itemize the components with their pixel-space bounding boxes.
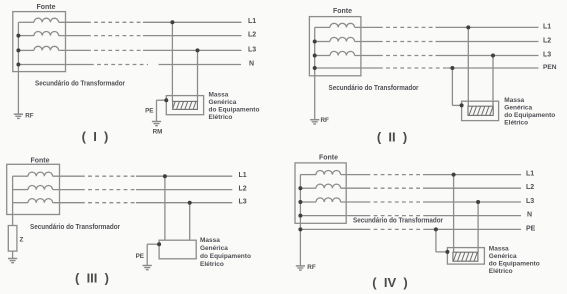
hatched mass symbol (IV) [453,252,478,261]
winding L3 (III) [28,199,53,203]
label RF (I) [25,113,34,120]
node L2 tap (II) [313,40,317,44]
label PEN (II) [543,64,557,71]
star-point bus wire (III) [13,176,28,214]
label L3 (IV) [526,198,534,205]
svg-text:L3: L3 [526,198,534,205]
node PE on enclosure (III) [157,242,161,246]
svg-text:Elétrico: Elétrico [209,114,233,121]
svg-text:L2: L2 [543,37,551,44]
label Fonte (III) [30,157,49,164]
wire L2 (I) [59,35,242,37]
label L2 (II) [543,37,551,44]
label RF (IV) [307,264,316,271]
svg-text:Fonte: Fonte [333,8,352,15]
wire PEN (II) [315,67,539,69]
node L3 junction (III) [188,201,192,205]
wire L3 drop to mass (I) [197,50,199,101]
transformer secondary box (I) [13,12,66,72]
label Massa Generica do Equipamento Eletrico (II) [504,97,555,127]
winding L3 (I) [34,46,59,50]
winding L1 (II) [330,23,355,27]
wire L3 drop to mass (II) [492,56,494,107]
wire PE (IV) [300,228,521,230]
node L1 junction (I) [170,20,174,24]
node L1 junction (III) [163,174,167,178]
svg-text:Secundário do Transformador: Secundário do Transformador [353,218,443,225]
node L3 tap (II) [313,54,317,58]
winding L1 (III) [28,172,53,176]
label Fonte (I) [36,4,55,11]
node L3 tap (IV) [298,200,302,204]
svg-text:RF: RF [321,117,330,124]
equipment mass enclosure (IV) [447,248,484,265]
svg-text:L1: L1 [239,172,247,179]
node L3 junction (I) [196,48,200,52]
svg-text:Massa: Massa [489,246,509,253]
label L1 (I) [248,18,256,25]
label L2 (III) [239,186,247,193]
label L3 (III) [239,199,247,206]
svg-text:Elétrico: Elétrico [489,268,513,275]
label L1 (II) [543,23,551,30]
hatched mass symbol (II) [468,106,493,115]
svg-text:N: N [249,60,254,67]
wire L3 (IV) [341,201,521,203]
wire to impedance Z (III) [12,215,14,226]
svg-text:PE: PE [526,225,536,232]
wire PE (I) [157,100,167,121]
winding L2 (IV) [316,184,341,188]
wire L1 drop to mass (III) [164,176,166,240]
ground electrode RF (I) [14,114,23,118]
label Secundario do Transformador (III) [30,224,120,231]
svg-text:( IV ): ( IV ) [372,275,407,290]
label Secundario do Transformador (I) [35,81,125,88]
label Fonte (IV) [319,154,338,161]
wire L1 (III) [53,175,233,177]
node PE junction (IV) [434,227,438,231]
neutral bus wire (IV) [300,175,316,230]
svg-text:Secundário do Transformador: Secundário do Transformador [35,81,125,88]
svg-text:Massa: Massa [200,237,220,244]
wire L1 (I) [59,21,242,23]
transformer secondary box (II) [309,17,361,76]
node PE on enclosure (II) [460,103,464,107]
caption ( I ) [82,129,109,144]
wire L1 drop to mass (IV) [453,175,455,253]
node PEN tap (II) [313,66,317,70]
wire PE (III) [147,244,159,265]
label Z (III) [20,237,24,244]
wire L2 (IV) [341,187,521,189]
svg-text:Genérica: Genérica [489,253,517,260]
svg-text:L3: L3 [248,46,256,53]
wire RF earth conductor (IV) [299,229,301,266]
node PE on enclosure (I) [164,98,168,102]
label Massa Generica do Equipamento Eletrico (III) [200,237,251,268]
svg-text:Secundário do Transformador: Secundário do Transformador [30,224,120,231]
winding L3 (IV) [316,198,341,202]
svg-text:Elétrico: Elétrico [504,120,528,127]
wire L3 (I) [59,49,242,51]
label PE (I) [145,107,153,114]
label L1 (IV) [526,171,534,178]
svg-text:L1: L1 [248,18,256,25]
wire L2 (III) [53,189,233,191]
hatched mass symbol (I) [173,101,198,109]
wire L1 (IV) [341,174,521,176]
svg-text:Z: Z [20,237,24,244]
wire N (I) [18,64,241,66]
svg-text:Fonte: Fonte [30,157,49,164]
label L2 (I) [248,32,256,39]
wire L3 (III) [53,202,233,204]
node PEN junction (II) [450,66,454,70]
node L2 tap (IV) [298,186,302,190]
node L3 junction (IV) [476,200,480,204]
node PE on enclosure (IV) [445,250,449,254]
svg-text:Massa: Massa [504,97,524,104]
label L2 (IV) [526,184,534,191]
svg-text:Fonte: Fonte [319,154,338,161]
label PE (IV) [526,225,536,232]
svg-text:PE: PE [145,107,153,114]
svg-text:Genérica: Genérica [200,245,228,252]
wire L1 (II) [355,26,539,28]
svg-text:RM: RM [153,129,163,136]
neutral bus wire (II) [315,27,330,68]
svg-text:N: N [527,212,532,219]
wire RF earth conductor (II) [314,68,316,120]
transformer secondary box (III) [7,164,60,214]
equipment mass enclosure (III) [159,240,196,259]
svg-text:Genérica: Genérica [504,105,532,112]
label L3 (I) [248,46,256,53]
caption ( III ) [75,271,109,286]
label Secundario do Transformador (IV) [353,218,443,225]
svg-text:Massa: Massa [209,91,229,98]
ground electrode RF (II) [310,120,319,124]
svg-text:RF: RF [25,113,34,120]
svg-text:L2: L2 [248,32,256,39]
node L2 tap (I) [16,34,20,38]
transformer secondary box (IV) [295,163,346,223]
node L1 junction (II) [466,25,470,29]
label N (I) [249,60,254,67]
equipment mass enclosure (II) [462,101,499,120]
label Secundario do Transformador (II) [329,85,419,92]
svg-text:( I ): ( I ) [82,129,109,144]
ground electrode PE (III) [143,266,152,270]
svg-text:do Equipamento: do Equipamento [209,106,260,113]
node N tap (I) [16,63,20,67]
svg-text:L2: L2 [526,184,534,191]
wire L3 drop to mass (III) [189,203,191,241]
svg-text:Genérica: Genérica [209,99,237,106]
svg-text:L1: L1 [543,23,551,30]
node L1 junction (IV) [452,173,456,177]
svg-text:( III ): ( III ) [75,271,109,286]
neutral bus wire (I) [18,22,34,64]
label N (IV) [527,212,532,219]
svg-text:L1: L1 [526,171,534,178]
impedance Z (III) [8,226,17,252]
svg-text:( II ): ( II ) [377,130,407,145]
wire L2 (II) [355,41,539,43]
winding L2 (II) [330,37,355,41]
winding L2 (III) [28,186,53,190]
svg-text:Elétrico: Elétrico [200,261,224,268]
label RF (II) [321,117,330,124]
svg-text:L3: L3 [239,199,247,206]
ground electrode RF (IV) [296,266,305,270]
label RM (I) [153,129,163,136]
winding L3 (II) [330,51,355,55]
label L1 (III) [239,172,247,179]
svg-text:RF: RF [307,264,316,271]
winding L1 (I) [34,18,59,22]
svg-text:do Equipamento: do Equipamento [504,112,555,119]
label Massa Generica do Equipamento Eletrico (IV) [489,246,540,276]
svg-text:L3: L3 [543,51,551,58]
ground electrode RM (I) [152,122,161,126]
wire L3 drop to mass (IV) [477,202,479,252]
winding L2 (I) [34,31,59,35]
label PE (III) [136,253,144,260]
svg-text:L2: L2 [239,186,247,193]
label Massa Generica do Equipamento Eletrico (I) [209,91,260,121]
wire L1 drop to mass (I) [171,22,173,101]
equipment mass enclosure (I) [166,96,203,115]
wire RF earth conductor (I) [17,65,19,115]
svg-text:Fonte: Fonte [36,4,55,11]
winding L1 (IV) [316,171,341,175]
label Fonte (II) [333,8,352,15]
svg-text:PEN: PEN [543,64,557,71]
node PE tap (IV) [298,227,302,231]
wire PEN drop to PE (II) [452,68,461,105]
caption ( IV ) [372,275,407,290]
label L3 (II) [543,51,551,58]
svg-text:do Equipamento: do Equipamento [200,253,251,260]
caption ( II ) [377,130,407,145]
ground electrode (III) [8,259,17,263]
wire Z to ground (III) [12,251,14,258]
wire N (IV) [300,215,521,217]
wire PE drop to enclosure (IV) [436,229,448,252]
wire L3 (II) [355,55,539,57]
node L3 tap (I) [16,48,20,52]
svg-text:do Equipamento: do Equipamento [489,261,540,268]
wire L1 drop to mass (II) [467,27,469,106]
node N tap (IV) [298,214,302,218]
svg-text:Secundário do Transformador: Secundário do Transformador [329,85,419,92]
svg-text:PE: PE [136,253,144,260]
node L3 junction (II) [491,54,495,58]
